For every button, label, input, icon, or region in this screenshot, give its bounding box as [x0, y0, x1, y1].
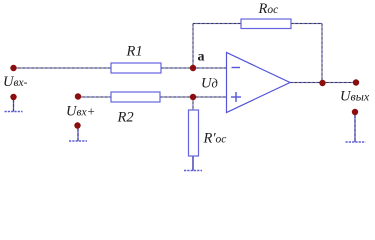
svg-text:Uвх-: Uвх-: [3, 74, 28, 90]
svg-text:R2: R2: [117, 110, 134, 126]
svg-text:Uд: Uд: [201, 76, 218, 92]
svg-text:Uвх+: Uвх+: [66, 104, 95, 120]
svg-text:a: a: [198, 50, 205, 65]
svg-text:R′ос: R′ос: [203, 131, 227, 147]
svg-text:R1: R1: [126, 44, 143, 60]
svg-text:Uвых: Uвых: [340, 89, 370, 105]
svg-text:Rос: Rос: [258, 1, 279, 17]
